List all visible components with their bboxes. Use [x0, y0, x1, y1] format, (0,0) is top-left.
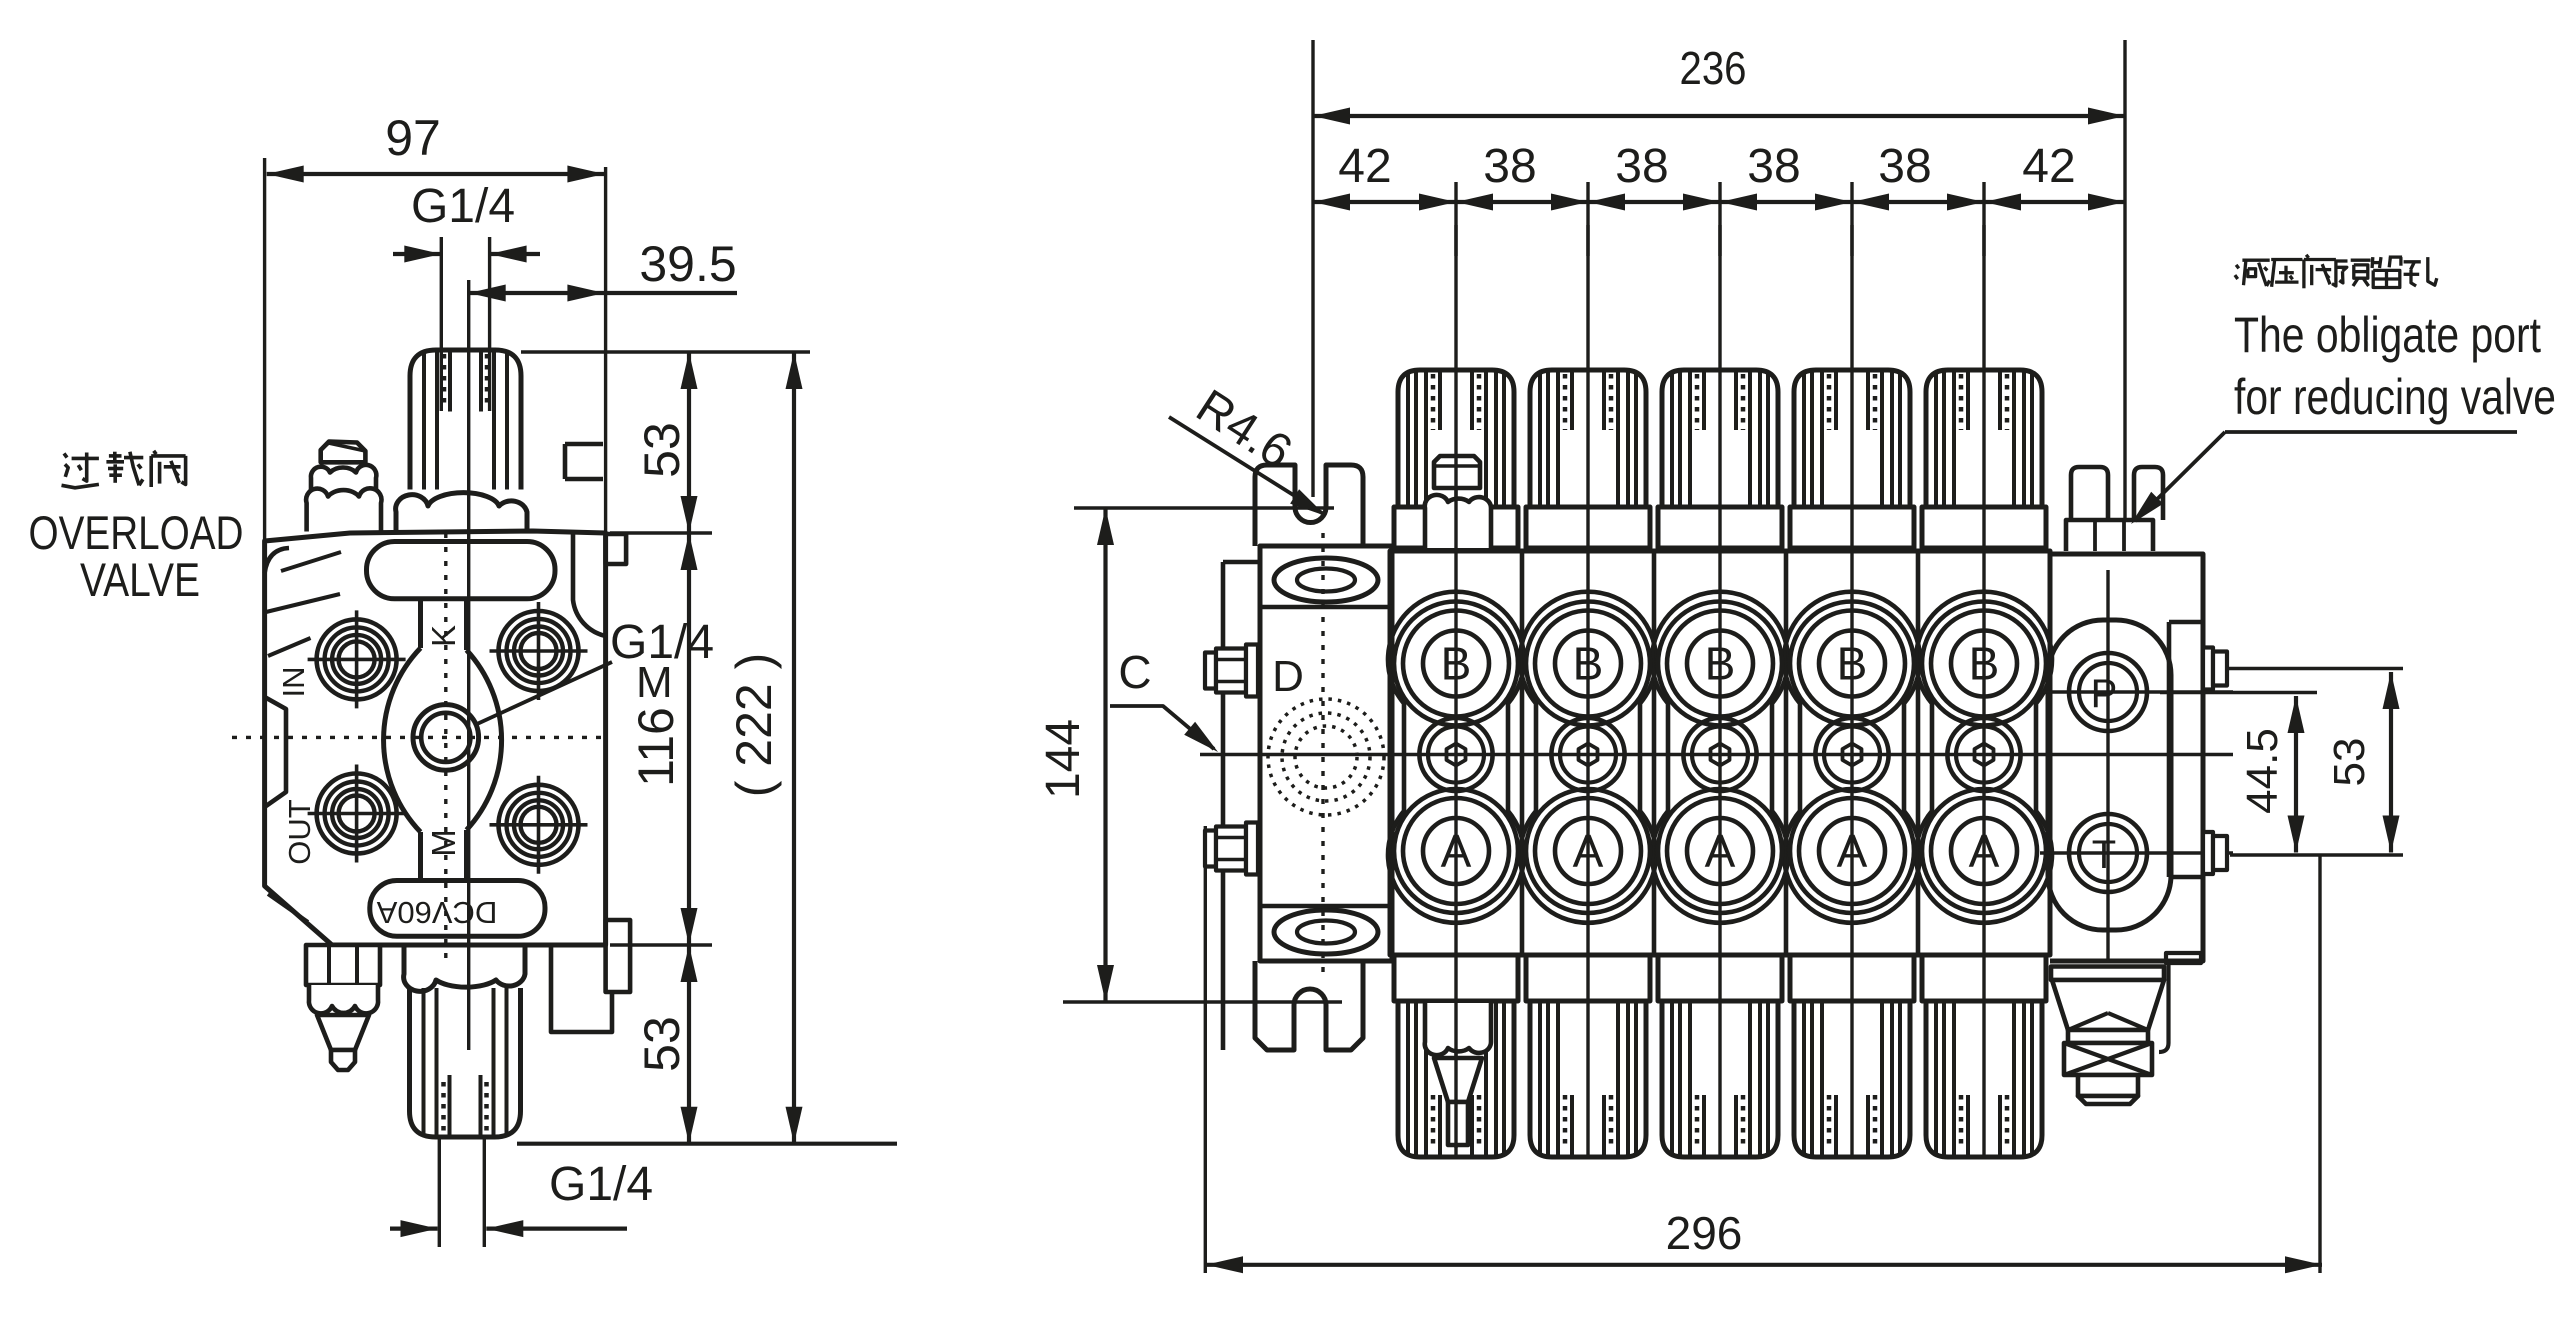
svg-text:42: 42	[2022, 140, 2075, 193]
svg-text:The obligate port: The obligate port	[2234, 307, 2541, 363]
svg-text:P: P	[2091, 672, 2118, 716]
svg-text:OVERLOAD: OVERLOAD	[29, 506, 244, 559]
svg-text:38: 38	[1878, 140, 1931, 193]
svg-text:G1/4: G1/4	[549, 1158, 653, 1211]
svg-text:44.5: 44.5	[2238, 728, 2287, 814]
svg-text:B: B	[1441, 638, 1472, 690]
svg-text:VALVE: VALVE	[80, 553, 200, 606]
svg-text:53: 53	[634, 422, 690, 478]
svg-text:K: K	[425, 625, 462, 647]
svg-text:53: 53	[634, 1016, 690, 1072]
svg-text:97: 97	[385, 110, 441, 166]
svg-text:A: A	[1705, 825, 1736, 877]
svg-text:C: C	[1118, 646, 1151, 698]
svg-text:A: A	[1969, 825, 2000, 877]
svg-text:T: T	[2092, 833, 2116, 877]
svg-text:296: 296	[1666, 1207, 1743, 1259]
svg-text:IN: IN	[276, 667, 311, 698]
svg-text:M: M	[425, 829, 462, 857]
svg-text:B: B	[1969, 638, 2000, 690]
svg-text:DCV60A: DCV60A	[376, 895, 497, 930]
svg-text:G1/4: G1/4	[411, 180, 515, 233]
svg-text:A: A	[1837, 825, 1868, 877]
svg-text:for reducing valve: for reducing valve	[2234, 369, 2556, 425]
svg-text:( 222 ): ( 222 )	[726, 653, 782, 798]
svg-text:38: 38	[1747, 140, 1800, 193]
svg-text:OUT: OUT	[282, 799, 317, 865]
svg-text:A: A	[1441, 825, 1472, 877]
svg-text:144: 144	[1037, 719, 1090, 799]
svg-text:B: B	[1573, 638, 1604, 690]
svg-text:236: 236	[1680, 42, 1747, 94]
svg-text:38: 38	[1483, 140, 1536, 193]
svg-text:53: 53	[2325, 738, 2374, 787]
svg-text:M: M	[636, 658, 673, 707]
svg-text:39.5: 39.5	[639, 236, 736, 292]
svg-text:42: 42	[1338, 140, 1391, 193]
svg-text:116: 116	[628, 707, 684, 787]
svg-text:D: D	[1272, 652, 1304, 701]
svg-text:A: A	[1573, 825, 1604, 877]
svg-text:B: B	[1837, 638, 1868, 690]
svg-text:B: B	[1705, 638, 1736, 690]
svg-text:38: 38	[1615, 140, 1668, 193]
